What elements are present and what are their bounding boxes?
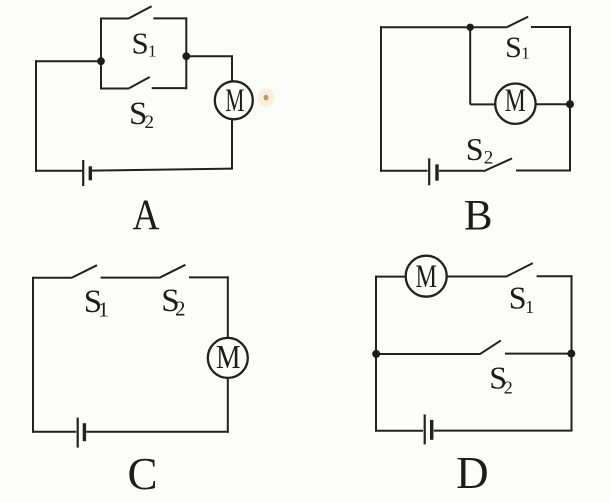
wire D: right vertical side bbox=[571, 275, 573, 431]
wire D: left vertical side bbox=[375, 276, 377, 432]
svg-text:M: M bbox=[505, 83, 526, 119]
node D: left junction dot bbox=[372, 350, 380, 358]
scan artifact: pale halo speck right of motor A bbox=[258, 88, 275, 107]
motor M (circuit D) circle bbox=[406, 256, 447, 297]
svg-text:2: 2 bbox=[484, 147, 494, 168]
wire D: bottom left to battery bbox=[375, 430, 423, 432]
svg-text:S: S bbox=[509, 280, 527, 316]
battery B: short thick plate (negative) bbox=[435, 164, 438, 180]
battery B: long plate (positive) bbox=[428, 158, 430, 185]
node B: right junction dot bbox=[566, 100, 574, 108]
battery C: short thick plate (negative) bbox=[83, 423, 86, 441]
wire B: top right segment bbox=[531, 26, 571, 28]
battery D: long plate (positive) bbox=[424, 414, 426, 444]
svg-text:2: 2 bbox=[504, 378, 513, 398]
svg-text:2: 2 bbox=[145, 112, 155, 133]
switch S1 (circuit B) blade bbox=[506, 17, 528, 28]
svg-text:C: C bbox=[127, 449, 157, 499]
wire B: top left segment to switch pivot bbox=[380, 26, 506, 28]
switch S2 (circuit A) blade bbox=[129, 77, 150, 89]
motor M (circuit A) circle bbox=[215, 81, 253, 119]
wire B: left vertical side bbox=[380, 26, 382, 171]
wire A: motor top lead bbox=[231, 55, 233, 81]
switch S1 (circuit A) blade bbox=[128, 6, 152, 19]
switch S2 (circuit D) blade bbox=[480, 340, 501, 354]
wire A: bottom branch left segment bbox=[100, 88, 129, 90]
wire A: left vertical side bbox=[35, 60, 37, 172]
wire A: top branch right segment bbox=[153, 17, 187, 19]
svg-text:1: 1 bbox=[148, 42, 157, 61]
svg-text:1: 1 bbox=[521, 43, 530, 62]
wire B: junction drop to motor branch bbox=[469, 27, 471, 104]
wire A: top branch left segment bbox=[100, 18, 128, 20]
node A: right junction dot bbox=[182, 52, 190, 60]
switch S1 (circuit C) blade bbox=[71, 265, 97, 278]
svg-text:M: M bbox=[416, 259, 438, 295]
switch S2 (circuit C) blade bbox=[160, 265, 186, 278]
battery A: short thick plate (negative) bbox=[89, 166, 92, 180]
battery D: short thick plate (negative) bbox=[430, 420, 433, 440]
wire D: middle left segment to switch pivot bbox=[376, 353, 480, 355]
wire B: battery to switch pivot bbox=[439, 170, 484, 172]
wire D: motor to switch pivot bbox=[447, 276, 507, 278]
wire B: motor right lead bbox=[536, 103, 571, 105]
battery A: long plate (positive) bbox=[82, 160, 84, 186]
svg-text:S: S bbox=[132, 25, 149, 60]
svg-text:A: A bbox=[133, 192, 160, 239]
wire A: bottom branch right segment bbox=[152, 87, 187, 89]
wire C: right vertical below motor bbox=[227, 378, 229, 433]
scan artifact: orange speck core bbox=[264, 95, 269, 101]
svg-text:D: D bbox=[456, 448, 489, 498]
wire A: left parallel branch vertical bbox=[100, 18, 102, 90]
wire C: top middle segment bbox=[101, 277, 160, 279]
wire C: top left corner segment bbox=[33, 277, 71, 279]
wire A: bottom right from battery to right corner bbox=[92, 169, 232, 171]
node D: right junction dot bbox=[567, 350, 575, 358]
wire C: bottom left segment bbox=[32, 431, 76, 433]
wire C: left vertical side bbox=[32, 277, 34, 433]
node B: top junction dot bbox=[467, 24, 474, 31]
wire D: top left to motor bbox=[375, 276, 406, 278]
wire C: top right segment bbox=[189, 276, 229, 278]
svg-text:S: S bbox=[505, 31, 522, 64]
svg-text:B: B bbox=[464, 192, 493, 239]
svg-text:M: M bbox=[216, 339, 241, 376]
wire B: right vertical side bbox=[569, 26, 571, 172]
wire A: left feed horizontal to junction bbox=[35, 60, 101, 62]
wire A: right vertical below motor bbox=[231, 120, 233, 170]
wire C: right vertical above motor bbox=[227, 276, 229, 338]
wire B: bottom left to battery bbox=[380, 170, 428, 172]
wire A: bottom left to battery bbox=[35, 170, 82, 172]
wire D: bottom right segment bbox=[434, 430, 573, 432]
svg-text:2: 2 bbox=[175, 297, 186, 321]
battery C: long plate (positive) bbox=[77, 418, 79, 448]
wire B: motor left lead bbox=[470, 103, 495, 105]
wire D: middle right segment bbox=[505, 353, 572, 355]
svg-text:1: 1 bbox=[98, 297, 109, 321]
node A: left junction dot bbox=[97, 57, 105, 65]
motor M (circuit B) circle bbox=[495, 84, 535, 124]
svg-text:M: M bbox=[225, 83, 244, 119]
switch S1 (circuit D) blade bbox=[506, 263, 533, 277]
switch S2 (circuit B) blade bbox=[483, 158, 512, 171]
wire A: right junction to motor lead bbox=[186, 55, 233, 57]
wire C: bottom right from battery to corner bbox=[86, 431, 229, 433]
motor M (circuit C) circle bbox=[208, 338, 248, 378]
wire B: bottom right segment bbox=[516, 170, 571, 172]
svg-text:1: 1 bbox=[525, 297, 534, 317]
wire A: right parallel branch vertical bbox=[185, 18, 187, 90]
svg-text:S: S bbox=[466, 131, 484, 167]
wire D: top right segment bbox=[537, 275, 573, 277]
